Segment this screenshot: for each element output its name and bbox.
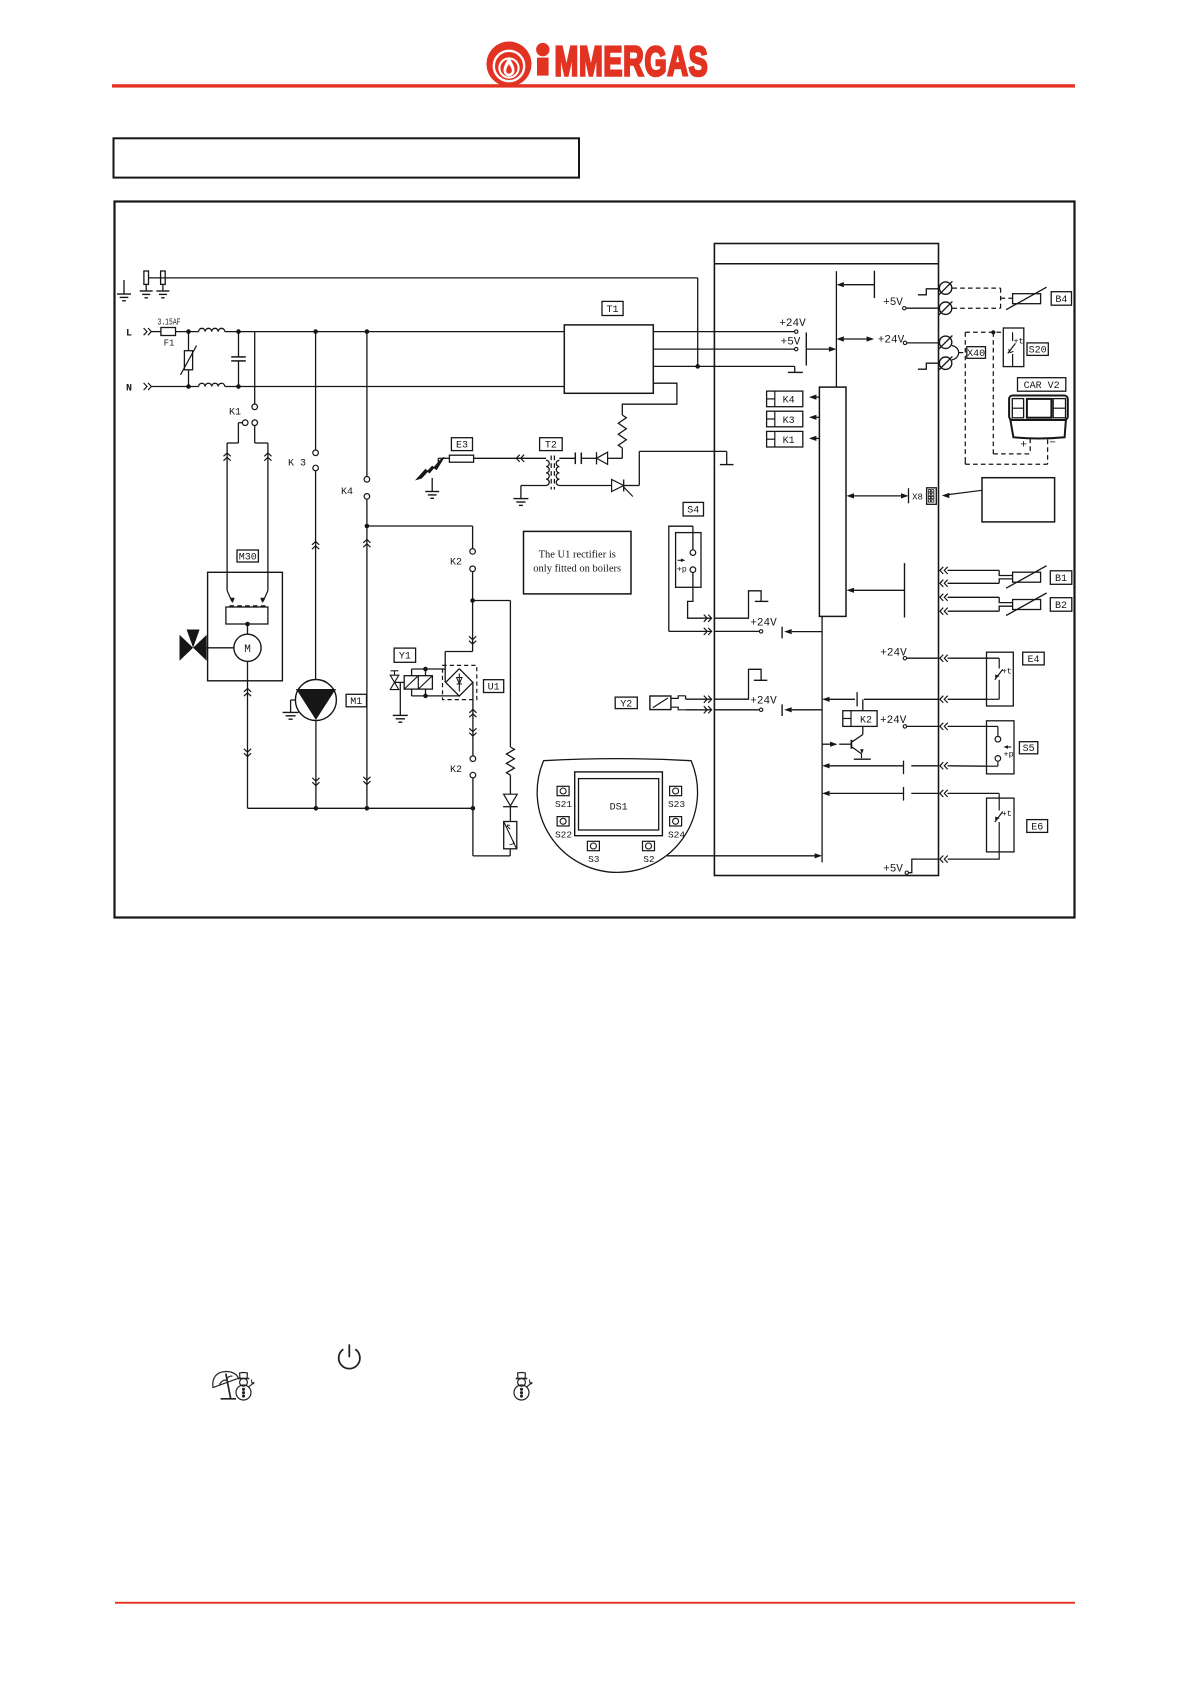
- svg-text:+24V: +24V: [880, 715, 907, 727]
- wire S2 to bus: [667, 855, 815, 857]
- label +24V right: [836, 336, 844, 341]
- terminal +24V E4: [903, 657, 906, 660]
- node L4: [365, 329, 370, 334]
- svg-text:S3: S3: [588, 854, 600, 865]
- wire branch to K2: [367, 525, 473, 527]
- wire +24V E4: [907, 657, 940, 659]
- wire K2 lower to node: [472, 778, 474, 808]
- svg-text:only fitted on boilers: only fitted on boilers: [533, 564, 621, 575]
- snowman winter icon: [236, 1373, 254, 1401]
- 3-way valve symbol: [180, 635, 194, 661]
- wire E6 feed: [940, 790, 948, 797]
- svg-text:+5V: +5V: [883, 864, 903, 876]
- terminal +24V T1: [795, 330, 798, 333]
- svg-text:N: N: [126, 384, 132, 395]
- wire B1 lo: [940, 580, 948, 587]
- winter-only snowman icon: [514, 1373, 532, 1401]
- S4 inner box: [676, 533, 701, 588]
- node gas-valve split: [470, 598, 475, 603]
- wire valve-coil: [395, 681, 405, 683]
- transistor Q1: [862, 726, 864, 734]
- label T1: [602, 301, 623, 315]
- svg-text:M1: M1: [350, 697, 362, 708]
- label Y2: [615, 697, 637, 709]
- S4 common wire: [669, 630, 711, 632]
- wire bridge to K2 lower: [472, 682, 474, 756]
- svg-text:S2: S2: [643, 854, 655, 865]
- PE wire to board: [149, 277, 698, 279]
- X40 plug arcs: [952, 346, 959, 361]
- line filter choke L: [199, 328, 225, 331]
- arrow sensor bar to block: [847, 588, 855, 593]
- svg-text:S5: S5: [1023, 744, 1035, 755]
- capacitor C-hv: [574, 453, 576, 465]
- wire fuse to node: [176, 331, 199, 333]
- X8 bar: [908, 488, 910, 503]
- svg-text:K4: K4: [341, 487, 353, 498]
- wire E4 feed: [940, 655, 948, 662]
- arrow to K4: [809, 395, 817, 400]
- wire +5V to screw: [906, 307, 939, 309]
- svg-text:B1: B1: [1055, 574, 1067, 585]
- wire K1 branch: [254, 332, 256, 405]
- arrow box to X8: [949, 490, 982, 494]
- svg-text:+t: +t: [1013, 337, 1023, 347]
- svg-text:+t: +t: [1002, 667, 1012, 677]
- display DS1 inner: [579, 779, 659, 830]
- svg-text:S4: S4: [687, 506, 699, 517]
- label B2: [1050, 598, 1072, 612]
- wire B2 lo: [940, 608, 948, 615]
- terminal +5V T1: [795, 347, 798, 350]
- rectifier U1 dashed outline: [443, 665, 477, 699]
- wire T2 secondary top: [559, 457, 575, 459]
- ignition transformer T2: [540, 438, 563, 451]
- screw terminal 2: [939, 302, 951, 314]
- stub screw1: [918, 289, 939, 295]
- terminal +5V upper: [903, 307, 906, 310]
- wire K3 branch: [315, 332, 317, 451]
- svg-text:X8: X8: [912, 492, 923, 502]
- svg-text:MMERGAS: MMERGAS: [555, 37, 709, 85]
- header red rule: [112, 84, 1075, 87]
- connector bar T1: [805, 333, 807, 366]
- svg-text:E3: E3: [456, 441, 468, 452]
- wire E3 to T2: [474, 457, 546, 459]
- S4 arrow +p: [678, 559, 684, 561]
- dashed X40 riser: [959, 352, 966, 354]
- button S2: [643, 841, 655, 850]
- wire opto return: [472, 808, 474, 856]
- wire to U1 bridge: [472, 601, 474, 652]
- rectifier U1 bridge: [446, 669, 473, 696]
- wire electrode: [437, 458, 439, 462]
- modulator Y2: [650, 696, 671, 710]
- connector X8: [927, 488, 937, 505]
- svg-text:F1: F1: [164, 339, 175, 349]
- svg-text:The U1 rectifier is: The U1 rectifier is: [539, 550, 616, 561]
- terminal +24V Y2: [759, 708, 762, 711]
- svg-text:+5V: +5V: [883, 297, 903, 309]
- outdoor probe B4: [1013, 294, 1041, 304]
- Immergas logo: [487, 37, 709, 86]
- svg-text:M30: M30: [239, 552, 257, 563]
- label E6: [1027, 820, 1048, 833]
- bar +5V upper: [873, 271, 875, 298]
- dashed drop to CAR +: [992, 332, 994, 454]
- label E3: [451, 438, 472, 451]
- relay coil K1: [767, 431, 803, 447]
- node L2: [236, 329, 241, 334]
- wire B2 hi: [940, 594, 948, 601]
- svg-text:+t: +t: [1002, 809, 1012, 819]
- optocoupler U2: [504, 822, 517, 849]
- svg-text:S21: S21: [555, 799, 572, 810]
- svg-text:K2: K2: [450, 765, 462, 776]
- arrow to K3: [809, 415, 817, 420]
- stub screw4: [918, 363, 939, 369]
- label B4: [1051, 292, 1071, 306]
- summer-winter icon: [213, 1372, 239, 1399]
- wire SCR to board: [624, 485, 640, 487]
- display DS1 outer: [575, 772, 663, 836]
- room thermostat S20: [1003, 328, 1024, 367]
- safety thermostat E4: [987, 652, 1014, 706]
- screw terminal 3: [939, 336, 951, 348]
- svg-text:K1: K1: [229, 408, 241, 419]
- label S5: [1019, 742, 1037, 754]
- PE suppression capacitor 1: [144, 271, 149, 284]
- wire S5 return: [940, 762, 948, 769]
- wire resistor-LED: [509, 775, 511, 794]
- svg-text:S23: S23: [668, 799, 685, 810]
- wire B1 hi: [940, 567, 948, 574]
- arrow bus to Y2 bar: [784, 707, 792, 712]
- svg-text:DS1: DS1: [610, 802, 628, 813]
- E4 return inside: [864, 698, 939, 700]
- svg-text:M: M: [244, 644, 251, 656]
- dashed drop to CAR -: [964, 460, 966, 464]
- wire Y2 lower: [686, 709, 711, 711]
- terminal +5V bottom: [905, 871, 908, 874]
- wire T1 out common: [653, 365, 794, 367]
- diagram frame: [115, 202, 1075, 918]
- flow probe B1: [1013, 572, 1041, 582]
- sensor common bar: [904, 563, 906, 617]
- wire M30 feed left: [226, 443, 228, 591]
- wire pump return: [315, 720, 317, 808]
- PCB header line: [714, 263, 938, 265]
- node N2: [236, 384, 241, 389]
- Y2 plug: [671, 696, 686, 699]
- dashed wires to B4: [952, 287, 1000, 289]
- svg-text:Y2: Y2: [620, 699, 632, 710]
- button S22: [557, 817, 569, 826]
- electrode ground: [431, 478, 433, 492]
- svg-text:Y1: Y1: [399, 652, 411, 663]
- node bottom-K2: [471, 806, 476, 811]
- pressure switch S4 outer: [669, 526, 693, 631]
- E6 feed inside: [911, 792, 938, 794]
- S4 contact: [692, 526, 694, 550]
- wire N entry: [152, 386, 199, 388]
- svg-text:3.15AF: 3.15AF: [158, 317, 181, 327]
- label CAR V2: [1018, 378, 1066, 392]
- relay coil K3: [767, 411, 803, 427]
- E6 return inside +5V: [909, 859, 939, 873]
- terminal +24V K2: [903, 725, 906, 728]
- bar S4: [781, 627, 783, 639]
- dashed X40 to S20: [965, 331, 1003, 333]
- label E4: [1023, 652, 1044, 665]
- label S20: [1027, 343, 1048, 356]
- node K4-K2 branch: [365, 524, 370, 529]
- chassis ground symbol: [123, 280, 125, 294]
- svg-text:K 3: K 3: [288, 459, 306, 470]
- driver block: [819, 387, 846, 616]
- label M1: [346, 694, 366, 707]
- X8 double arrow: [847, 493, 855, 498]
- diode D-hv: [596, 452, 598, 464]
- wire Y2 upper: [685, 696, 687, 699]
- svg-text:T1: T1: [607, 305, 619, 316]
- button S21: [557, 786, 569, 795]
- relay coil K4: [767, 391, 803, 407]
- wire to K2 coil: [862, 699, 864, 710]
- wire +5V into bus: [806, 348, 829, 350]
- spark line terminator: [726, 451, 728, 464]
- wire +24V Y2: [714, 709, 759, 711]
- svg-text:B4: B4: [1055, 295, 1067, 306]
- label U1: [484, 680, 504, 693]
- wire +24V to screw: [907, 342, 940, 344]
- S4 wire out: [688, 573, 711, 619]
- empty title box: [114, 138, 580, 177]
- bar Y2: [781, 704, 783, 716]
- pump ground stub: [291, 699, 296, 701]
- Y2 upper inside: [714, 669, 761, 699]
- wire M30 return: [247, 661, 249, 808]
- svg-text:S24: S24: [668, 830, 685, 841]
- common terminator: [794, 366, 796, 372]
- svg-text:X40: X40: [967, 349, 985, 360]
- filter capacitor CX: [238, 332, 240, 357]
- S5 return inside: [911, 765, 938, 767]
- wire K2 to node: [472, 572, 474, 601]
- wire L entry: [152, 331, 161, 333]
- svg-text:+24V: +24V: [750, 618, 777, 630]
- node N1: [186, 384, 191, 389]
- svg-text:+: +: [1020, 440, 1027, 452]
- svg-text:−: −: [1049, 438, 1056, 450]
- wire E4 return: [987, 698, 1000, 700]
- note box U1: [524, 531, 632, 594]
- svg-text:CAR V2: CAR V2: [1024, 381, 1060, 392]
- Y1 top rail: [412, 668, 446, 670]
- button S24: [670, 817, 682, 826]
- wire L bus: [225, 331, 565, 333]
- gas valve solenoid Y1: [404, 676, 432, 689]
- PE suppression capacitor 2: [161, 271, 166, 284]
- svg-text:K2: K2: [450, 558, 462, 569]
- thermal fuse E6: [987, 798, 1015, 852]
- arrow bus to S4 bar: [784, 629, 792, 634]
- svg-text:U1: U1: [488, 683, 500, 694]
- button S23: [670, 786, 682, 795]
- wire M30 feed right: [267, 443, 269, 591]
- Y1 ground: [399, 682, 401, 715]
- bus lower: [821, 616, 823, 862]
- svg-text:+24V: +24V: [878, 335, 905, 347]
- wire N bus: [225, 386, 565, 388]
- display pod outline: [537, 759, 697, 873]
- wire +24V S4: [714, 630, 759, 632]
- DHW probe B2: [1013, 600, 1041, 610]
- svg-text:E6: E6: [1031, 822, 1043, 833]
- remote control CAR V2: [1009, 396, 1068, 421]
- LED D1: [504, 794, 518, 806]
- wire pump feed: [315, 471, 317, 680]
- svg-text:K4: K4: [783, 396, 795, 407]
- HV resistor: [618, 415, 626, 448]
- wire K4 branch: [366, 332, 368, 477]
- wire to LED chain: [473, 600, 511, 602]
- label X40: [967, 347, 986, 359]
- svg-text:S22: S22: [555, 830, 572, 841]
- wire T2 secondary bottom: [559, 485, 611, 487]
- arrow bus to base: [822, 743, 830, 745]
- svg-text:K1: K1: [783, 436, 795, 447]
- standby power icon: [339, 1344, 360, 1368]
- transformer T1: [564, 325, 653, 393]
- bus upper: [835, 271, 837, 387]
- node dashed junction: [991, 330, 995, 334]
- svg-text:B2: B2: [1055, 601, 1067, 612]
- screw terminal 1: [939, 282, 951, 294]
- svg-text:+5V: +5V: [781, 336, 801, 348]
- relay coil K2: [843, 711, 877, 727]
- S4 line inside board: [714, 591, 761, 618]
- label Y1: [394, 648, 416, 662]
- varistor RV: [188, 332, 190, 351]
- wire T1 out +24V: [653, 331, 794, 333]
- main PCB outline: [714, 244, 938, 876]
- Y1 inlet valve symbol: [390, 675, 399, 689]
- svg-text:L: L: [126, 329, 132, 340]
- wire +24V K2: [907, 725, 940, 727]
- node L3: [313, 329, 318, 334]
- arrow to K1: [809, 436, 817, 441]
- svg-text:+24V: +24V: [779, 318, 806, 330]
- fuse F1 3.15AF: [161, 328, 176, 336]
- svg-text:K3: K3: [783, 416, 795, 427]
- line filter choke N: [199, 383, 225, 386]
- wire T1 tap step: [622, 383, 677, 415]
- pump M1: [295, 680, 336, 721]
- svg-text:E4: E4: [1027, 655, 1039, 666]
- svg-text:S20: S20: [1029, 346, 1047, 357]
- spark electrode E3: [417, 457, 445, 479]
- suppressor resistor E3: [449, 455, 473, 462]
- terminal +24V S4: [759, 630, 762, 633]
- svg-text:T2: T2: [545, 441, 557, 452]
- interface box: [982, 478, 1055, 522]
- terminal +24V right: [903, 341, 906, 344]
- wire diode-resistor node: [608, 457, 623, 459]
- button S3: [587, 841, 599, 850]
- wire T1 out +5V: [653, 348, 794, 350]
- svg-text:+p: +p: [677, 564, 687, 574]
- resistor R-led: [506, 747, 514, 775]
- PE drop wire to T1 common: [697, 278, 699, 367]
- wire cap-diode: [581, 457, 596, 459]
- T2 primary ground: [521, 485, 546, 487]
- bottom return wire: [248, 807, 473, 809]
- wire E6 return: [948, 852, 1000, 859]
- wire S5 feed: [940, 723, 948, 730]
- footer red rule: [115, 1602, 1075, 1604]
- thyristor SCR: [612, 480, 624, 492]
- svg-text:+24V: +24V: [750, 696, 777, 708]
- Y1 bottom rail: [412, 695, 460, 697]
- svg-text:+p: +p: [1003, 749, 1013, 759]
- label S4: [683, 502, 703, 516]
- label B1: [1050, 571, 1072, 585]
- node L1: [186, 329, 191, 334]
- wire K4 down: [366, 499, 368, 808]
- arrow bar to bus: [836, 282, 844, 287]
- svg-text:K2: K2: [860, 716, 872, 727]
- wire valve to motor: [207, 647, 234, 649]
- node PE-common junction: [695, 364, 700, 369]
- screw terminal 4: [939, 357, 951, 369]
- pressure switch S5: [987, 721, 1015, 774]
